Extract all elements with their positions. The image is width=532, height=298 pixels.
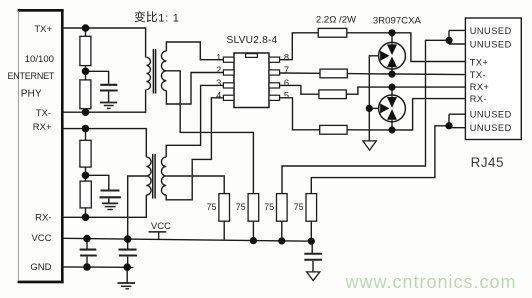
junction TX termination midpoint xyxy=(82,68,90,76)
wire row3 to RJ45 RX+ xyxy=(346,87,465,94)
svg-text:UNUSED: UNUSED xyxy=(470,123,512,133)
wire R1b to TX- rail xyxy=(85,109,87,113)
transformer T1 xyxy=(146,49,166,94)
junction GND cap1 xyxy=(83,263,91,271)
resistor 75ohm #3 xyxy=(277,194,288,222)
junction 75ohm4 rail xyxy=(308,238,315,245)
wire row2 to RJ45 TX- xyxy=(347,74,465,75)
wire RJ45 unused3 xyxy=(449,113,465,115)
transformer T2 xyxy=(146,154,166,199)
ground chassis bottom xyxy=(307,272,320,281)
capacitor VCC bypass C2 xyxy=(119,250,138,256)
wire unused top bracket xyxy=(448,30,450,44)
junction 75ohm3 rail xyxy=(278,237,285,244)
junction GND cap2 xyxy=(123,263,131,271)
capacitor RX termination xyxy=(100,191,121,198)
wire T2 right center tap to 75ohm R1 xyxy=(166,176,224,194)
svg-text:RX-: RX- xyxy=(470,94,487,104)
wire R1a to rail xyxy=(85,28,87,36)
wire RX+ rail xyxy=(64,129,147,157)
VCC symbol xyxy=(149,232,167,240)
RJ45 connector box xyxy=(465,18,521,140)
resistor 75ohm #1 xyxy=(219,194,230,222)
resistor termination R1b xyxy=(80,80,91,109)
junction gate thyristor2 xyxy=(366,105,373,112)
wire cap tap RX xyxy=(86,175,109,189)
svg-text:UNUSED: UNUSED xyxy=(470,39,512,49)
wire T1 sec bottom to pin2 xyxy=(166,73,223,105)
thyristor Q1 3R097CXA xyxy=(379,42,406,70)
junction RX- rail xyxy=(82,214,90,222)
wire thyristor2 gate xyxy=(369,107,379,109)
op-amp U1 SLVU2.8-4 body xyxy=(234,53,269,108)
resistor termination R2a xyxy=(80,140,91,167)
wire cap to ground xyxy=(108,92,110,102)
ground chassis thyristor gates xyxy=(363,141,376,150)
label turns ratio 1:1 xyxy=(135,11,157,22)
wire T2 left center tap to VCC rail xyxy=(128,176,147,239)
wire T1 sec top to pin1 xyxy=(166,42,223,60)
svg-text:ENTERNET: ENTERNET xyxy=(7,71,54,81)
svg-text:UNUSED: UNUSED xyxy=(470,26,512,36)
junction thyristor2 top xyxy=(388,84,395,91)
wire unused bottom bracket xyxy=(448,114,450,128)
wire thyristor1 top stem xyxy=(391,33,393,43)
thyristor Q2 3R097CXA xyxy=(379,95,406,123)
pin stub 5 xyxy=(269,95,280,100)
wire RJ45 unused4 xyxy=(449,127,465,129)
svg-text:3R097CXA: 3R097CXA xyxy=(373,15,422,26)
wire cap1 top stem xyxy=(86,239,88,249)
wire T1 center tap to 75ohm R2 xyxy=(166,71,253,194)
wire row1 to RJ45 TX+ xyxy=(347,33,466,62)
PHY block 10/100 Ethernet xyxy=(18,9,64,283)
junction unused bottom pair xyxy=(445,122,452,129)
junction RX termination midpoint xyxy=(82,172,90,180)
svg-text:VCC: VCC xyxy=(31,233,51,244)
ground signal TX cap xyxy=(100,103,117,109)
resistor 75ohm #2 xyxy=(248,194,259,222)
pin stub 1 xyxy=(223,57,234,62)
junction VCC cap1 xyxy=(83,235,91,243)
wire cap tap TX xyxy=(86,71,109,84)
resistor termination R2b xyxy=(80,181,91,208)
resistor 2.2ohm row4 xyxy=(320,125,347,134)
svg-text:TX-: TX- xyxy=(470,70,486,80)
svg-text:RX-: RX- xyxy=(35,212,51,223)
wire cap2 top stem xyxy=(127,239,129,248)
ground signal RX cap xyxy=(102,203,118,209)
wire GND to ground symbol xyxy=(126,267,128,282)
pin stub 4 xyxy=(223,95,234,100)
wire thyristor2 bottom stem xyxy=(391,121,393,130)
wire thyristor1 bottom stem xyxy=(391,69,393,75)
wire rail to chassis cap xyxy=(311,241,313,253)
junction 75ohm2 rail xyxy=(250,237,257,244)
svg-text:6: 6 xyxy=(284,78,289,88)
wire row4 to RJ45 RX- xyxy=(347,99,465,130)
wire chassis cap to ground xyxy=(312,261,314,272)
svg-text:3: 3 xyxy=(216,78,221,88)
svg-text:4: 4 xyxy=(216,90,221,100)
wire pin4 to T2 sec bottom xyxy=(166,98,223,200)
svg-text:SLVU2.8-4: SLVU2.8-4 xyxy=(227,35,278,46)
wire GND rail xyxy=(64,266,134,268)
wire cap1 bottom stem xyxy=(86,257,88,267)
junction thyristor2 bottom xyxy=(388,126,395,133)
wire cap to ground xyxy=(108,198,110,203)
pin stub 6 xyxy=(269,83,280,88)
wire 75ohm #1 bottom xyxy=(223,221,225,240)
svg-text:TX+: TX+ xyxy=(34,24,52,35)
wire R2b to RX- rail xyxy=(85,208,87,217)
svg-text:1: 1 xyxy=(173,12,179,24)
wire pin3 to T2 sec top xyxy=(166,85,223,157)
junction TX+ / R termination xyxy=(82,24,90,32)
svg-text:TX-: TX- xyxy=(36,108,51,119)
svg-text:75: 75 xyxy=(294,202,304,212)
pin stub 7 xyxy=(269,70,280,75)
wire thyristor2 top stem xyxy=(391,87,393,96)
junction TX- rail xyxy=(82,108,90,116)
wire RX- rail xyxy=(64,195,147,217)
svg-text:RX+: RX+ xyxy=(33,122,52,133)
wire R1a-R1b xyxy=(85,66,87,80)
wire 75ohm #4 bottom xyxy=(310,221,312,241)
wire RJ45 unused1 xyxy=(449,29,465,31)
wire 75ohm #2 bottom xyxy=(252,221,254,240)
svg-text:5: 5 xyxy=(284,90,289,100)
junction unused top pair xyxy=(445,37,452,44)
svg-text:RX+: RX+ xyxy=(470,82,490,92)
svg-text:2.2Ω /2W: 2.2Ω /2W xyxy=(316,14,357,25)
svg-text:2: 2 xyxy=(216,65,221,75)
resistor 2.2ohm row1 xyxy=(318,28,347,37)
wire RJ45 unused2 xyxy=(449,43,465,45)
svg-text:1: 1 xyxy=(216,52,221,62)
wire R2a to rail xyxy=(85,129,87,141)
svg-text:75: 75 xyxy=(264,202,274,212)
svg-text:TX+: TX+ xyxy=(470,58,489,68)
svg-text:PHY: PHY xyxy=(21,89,42,100)
capacitor VCC bypass C1 xyxy=(80,250,97,256)
svg-text:RJ45: RJ45 xyxy=(471,155,504,170)
svg-text:GND: GND xyxy=(30,262,51,273)
wire thyristor gates to ground xyxy=(369,56,378,141)
svg-text:www.cntronics.com: www.cntronics.com xyxy=(345,272,517,292)
svg-text:7: 7 xyxy=(284,65,289,75)
svg-text:10/100: 10/100 xyxy=(25,54,54,65)
svg-text:75: 75 xyxy=(236,202,246,212)
junction RX+ / R termination xyxy=(82,125,90,133)
wire R2a-R2b xyxy=(85,167,87,181)
resistor 75ohm #4 xyxy=(306,194,317,222)
svg-text:VCC: VCC xyxy=(151,221,171,232)
svg-text:8: 8 xyxy=(284,52,289,62)
svg-text:1: 1 xyxy=(158,12,164,24)
wire VCC rail xyxy=(64,238,313,241)
svg-text:UNUSED: UNUSED xyxy=(470,110,512,120)
wire unused top pair to 75ohm R3 xyxy=(282,40,449,193)
wire cap2 bottom stem xyxy=(127,257,129,268)
svg-text:75: 75 xyxy=(207,202,217,212)
wire pin7 to R 2.2 row2 xyxy=(280,72,320,74)
junction thyristor1 top xyxy=(388,29,395,36)
resistor termination R1a xyxy=(80,36,91,65)
junction VCC cap2 / T2 center tap xyxy=(124,235,132,243)
wire pin8 to R 2.2 row1 xyxy=(280,33,319,60)
svg-text::: : xyxy=(165,12,168,24)
junction thyristor1 bottom xyxy=(388,71,395,78)
wire unused bottom pair to 75ohm R4 xyxy=(311,126,449,194)
wire pin6 to R 2.2 row3 xyxy=(280,85,319,94)
wire TX+ rail xyxy=(64,28,146,58)
ground GND rail xyxy=(118,283,136,289)
wire 75ohm #3 bottom xyxy=(281,221,283,241)
pin stub 8 xyxy=(269,57,280,62)
wire TX- rail xyxy=(64,90,146,113)
pin stub 2 xyxy=(223,70,234,75)
wire pin5 to R 2.2 row4 xyxy=(280,98,320,130)
capacitor TX termination xyxy=(100,85,118,91)
capacitor chassis C xyxy=(304,254,322,260)
resistor 2.2ohm row3 xyxy=(319,90,346,99)
resistor 2.2ohm row2 xyxy=(320,69,347,78)
pin stub 3 xyxy=(223,83,234,88)
